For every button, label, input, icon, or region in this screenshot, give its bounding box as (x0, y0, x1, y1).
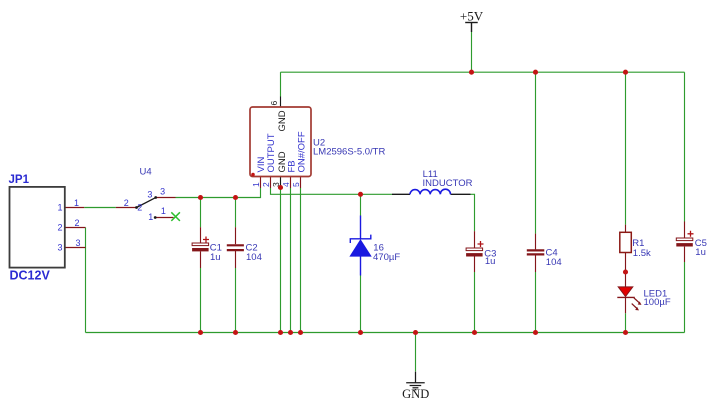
svg-text:1: 1 (57, 203, 62, 213)
svg-text:1.5k: 1.5k (633, 248, 651, 259)
svg-text:3: 3 (147, 190, 152, 200)
svg-text:3: 3 (76, 238, 81, 248)
svg-text:100µF: 100µF (644, 297, 671, 308)
svg-text:JP1: JP1 (9, 174, 30, 186)
svg-text:1u: 1u (485, 256, 496, 267)
svg-text:U4: U4 (140, 167, 152, 178)
svg-text:6: 6 (269, 101, 279, 106)
svg-text:ON#/OFF: ON#/OFF (297, 131, 308, 172)
svg-text:470µF: 470µF (373, 252, 400, 263)
svg-text:GND: GND (402, 387, 429, 401)
svg-text:104: 104 (546, 257, 562, 268)
svg-text:1: 1 (148, 212, 153, 222)
svg-text:2: 2 (261, 182, 271, 187)
svg-text:1: 1 (161, 206, 166, 216)
svg-text:104: 104 (246, 252, 262, 263)
svg-text:2: 2 (124, 198, 129, 208)
svg-text:1u: 1u (695, 247, 706, 258)
svg-text:3: 3 (57, 243, 62, 253)
svg-text:LM2596S-5.0/TR: LM2596S-5.0/TR (313, 147, 385, 158)
svg-text:DC12V: DC12V (10, 269, 51, 283)
svg-text:OUTPUT: OUTPUT (266, 133, 277, 172)
svg-text:INDUCTOR: INDUCTOR (423, 178, 473, 189)
svg-text:1: 1 (251, 182, 261, 187)
svg-text:2: 2 (57, 223, 62, 233)
svg-text:1u: 1u (210, 252, 221, 263)
svg-text:1: 1 (74, 198, 79, 208)
svg-text:2: 2 (137, 203, 142, 213)
svg-text:3: 3 (160, 186, 165, 196)
svg-text:2: 2 (75, 218, 80, 228)
svg-text:5: 5 (291, 182, 301, 187)
svg-text:+5V: +5V (460, 9, 484, 24)
svg-text:GND: GND (277, 110, 288, 131)
